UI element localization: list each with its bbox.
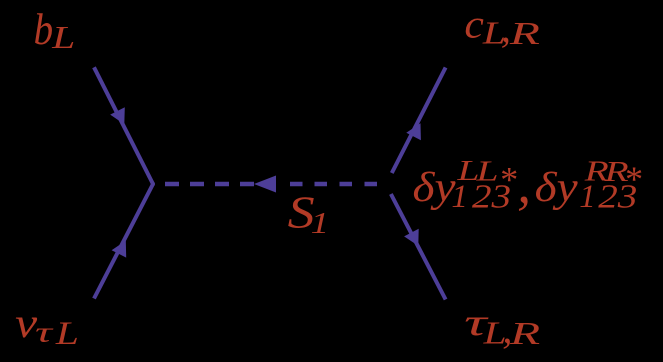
fermion line c (outgoing, top-right) (392, 68, 446, 174)
svg-text:τ: τ (35, 317, 55, 349)
left vertex node (151, 182, 155, 186)
svg-text:c: c (464, 2, 484, 47)
svg-text:b: b (34, 5, 54, 54)
fermion line b (incoming, top-left) (94, 67, 153, 184)
svg-text:1: 1 (579, 179, 596, 215)
svg-text:L: L (51, 19, 75, 55)
arrowhead on S1 propagator (points left) (254, 176, 276, 193)
svg-text:23: 23 (472, 179, 511, 216)
svg-text:R: R (509, 316, 541, 351)
svg-text:R: R (508, 16, 540, 51)
svg-text:L: L (55, 316, 79, 352)
svg-text:23: 23 (598, 179, 637, 216)
svg-text:,: , (517, 154, 531, 216)
svg-text:δy: δy (413, 164, 456, 211)
arrowhead on b line (points toward left vertex) (110, 107, 125, 124)
fermion line tau (outgoing, bottom-right) (391, 194, 446, 300)
svg-text:δy: δy (535, 164, 578, 211)
arrowhead on tau line (points away from right vertex) (404, 229, 419, 246)
arrowhead on c line (points away from right vertex) (406, 123, 421, 140)
svg-text:1: 1 (311, 205, 330, 240)
arrowhead on nu line (points toward left vertex) (112, 241, 127, 258)
svg-text:1: 1 (451, 179, 468, 215)
scalar propagator S1: dashed line between vertices (165, 182, 377, 187)
fermion line nu_tau (incoming, bottom-left) (94, 184, 153, 299)
